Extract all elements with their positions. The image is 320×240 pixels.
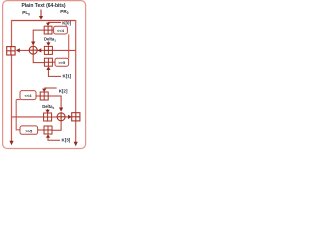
rail round2 from shift box to delta row and below [16,100,20,130]
wire round2 row3 output elbow up to xor2 bottom [52,121,61,130]
arrow delta row into xor [38,48,42,52]
adder (boxed plus) on left line [7,47,15,55]
right output arrow [74,142,78,147]
adder (boxed plus) round1 delta row [44,46,52,54]
wire round2 row1 output elbow down [48,96,61,108]
wire xor2 to right adder [66,116,69,118]
shift box >>5 round2 [20,126,38,134]
arrow into left adder [16,48,20,52]
adder (boxed plus) round1 shift-left row [44,26,52,34]
left output arrow [9,141,13,145]
adder (boxed plus) round1 shift-right row [44,58,52,66]
wire adder to shift box round1 row3 [52,61,55,63]
wire left line lower [11,55,13,141]
adder (boxed plus) round2 delta row [44,113,52,121]
svg-text:<<4: <<4 [57,28,65,33]
wire shift box to adder round2 row1 [36,95,40,97]
key K[3] feed wire [48,138,60,141]
xor circle round2 [57,112,66,121]
wire xor to left adder [20,49,30,51]
key K[1] feed wire [48,70,61,77]
arrow K[2] into adder top [42,89,46,92]
arrow K[3] into adder bottom [46,134,50,138]
svg-text:<<4: <<4 [25,93,33,98]
wire xor bottom elbow to shift-right row [33,55,44,63]
svg-text:K[0]: K[0] [62,20,71,25]
xor circle round1 [29,46,38,55]
arrow from title to split line [40,10,42,17]
wire right line lower [75,121,77,142]
svg-text:PR0: PR0 [60,9,68,15]
delta row wire round1 [37,49,75,51]
arrow K[0] into adder [47,21,49,23]
wire adder to xor2 [52,116,57,118]
rail from shift box down to delta row round1 [68,34,70,58]
wire adder to shift box [52,29,54,31]
right wire PR descending [75,20,77,113]
key K[0] feed wire [48,21,61,23]
key K[2] feed wire [44,87,57,89]
shift box <<4 round1 [54,26,68,34]
split wire [12,20,76,22]
svg-text:Plain Text (64-bits): Plain Text (64-bits) [21,3,65,9]
wire shift box to adder round2 row3 [38,129,44,131]
arrow into right adder [68,115,72,119]
svg-text:K[2]: K[2] [59,89,68,94]
svg-text:>>5: >>5 [25,128,33,133]
shift box >>5 round1 [55,58,69,66]
svg-text:>>5: >>5 [58,60,66,65]
arrow into xor top [31,42,35,46]
outer rounded border [3,1,86,149]
arrow Delta1 into adder [47,41,49,42]
svg-text:PL0: PL0 [22,10,30,16]
shift box <<4 round2 [20,91,36,100]
wire round1 row1 output to xor elbow [33,30,44,42]
svg-text:K[3]: K[3] [62,138,71,143]
arrow into xor2 top [59,108,63,112]
delta row wire round2 from left line [12,116,44,118]
svg-text:K[1]: K[1] [63,74,72,79]
left wire PL descending [11,20,13,47]
svg-text:Delta2: Delta2 [42,104,54,110]
arrow K[1] into adder bottom [46,66,50,70]
arrow Delta2 into adder [47,109,49,110]
svg-text:Delta1: Delta1 [44,37,56,43]
adder (boxed plus) on right line [72,113,80,121]
adder (boxed plus) round2 shift-left row [40,92,48,100]
adder (boxed plus) round2 shift-right row [44,126,52,134]
